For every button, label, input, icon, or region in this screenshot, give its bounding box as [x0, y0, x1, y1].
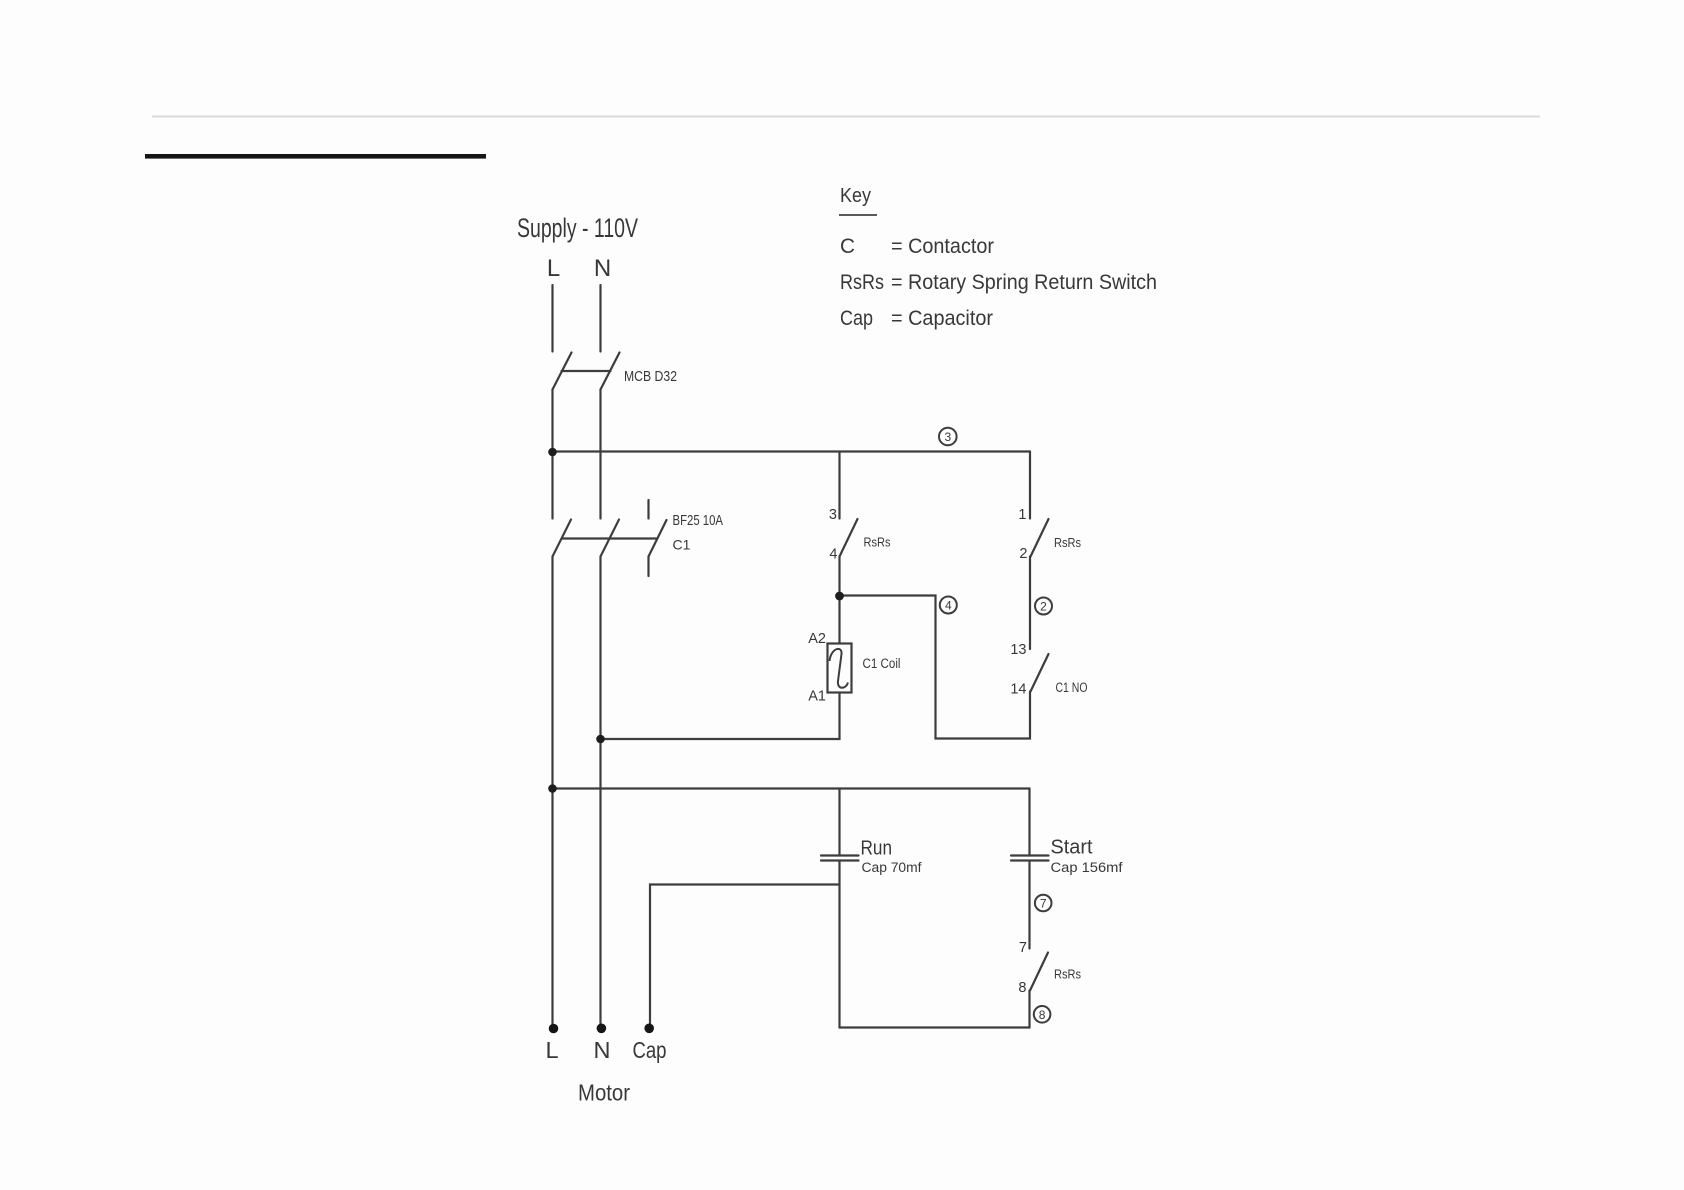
- contactor C1 pole L blade: [553, 520, 572, 557]
- svg-text:Cap: Cap: [633, 1037, 667, 1063]
- wire RsRs pin8 drop: [1028, 991, 1030, 1028]
- svg-text:7: 7: [1040, 897, 1047, 911]
- svg-text:L: L: [547, 255, 560, 282]
- motor terminal N dot: [597, 1024, 607, 1034]
- svg-text:C1: C1: [673, 537, 691, 553]
- wire RsRs 3-4 drop from rail: [838, 452, 840, 519]
- svg-text:4: 4: [945, 599, 952, 613]
- node junction N coil rail: [596, 735, 605, 744]
- svg-text:RsRs: RsRs: [1054, 536, 1081, 550]
- capacitor run bottom plate: [821, 859, 859, 861]
- svg-text:3: 3: [829, 507, 837, 523]
- svg-text:3: 3: [944, 430, 951, 444]
- node label 8 circle: [1034, 1006, 1051, 1023]
- svg-text:C1 NO: C1 NO: [1056, 680, 1088, 695]
- wire L rail to capacitors: [553, 787, 1030, 789]
- switch RsRs 7-8 blade: [1030, 953, 1048, 991]
- node junction L rail1: [548, 448, 557, 457]
- svg-text:8: 8: [1039, 1008, 1046, 1022]
- key underline: [839, 214, 877, 216]
- wire N supply drop: [599, 285, 601, 352]
- svg-text:8: 8: [1018, 980, 1026, 996]
- svg-text:C: C: [840, 235, 855, 258]
- wire run cap top drop: [838, 789, 840, 856]
- wire bottom cap rail: [840, 1026, 1030, 1028]
- key legend: [839, 184, 1157, 330]
- wire RsRs 4 to node4 junction: [838, 557, 840, 597]
- coil C1 body: [828, 644, 852, 693]
- breaker MCB D32 pole L blade: [553, 353, 572, 390]
- svg-text:RsRs: RsRs: [840, 271, 884, 294]
- svg-text:A2: A2: [808, 631, 826, 647]
- svg-text:= Rotary Spring Return Switch: = Rotary Spring Return Switch: [891, 271, 1157, 294]
- svg-text:N: N: [594, 255, 611, 282]
- contactor C1 pole 3 blade: [649, 520, 667, 557]
- wire between RsRs 1-2 and C1 NO: [1029, 557, 1031, 650]
- wire N below MCB: [599, 390, 601, 519]
- node junction coil top node4: [835, 592, 844, 601]
- svg-text:RsRs: RsRs: [864, 536, 891, 550]
- wire node4 loop to C1 NO: [840, 596, 1031, 739]
- motor terminal Cap dot: [644, 1024, 654, 1034]
- svg-text:A1: A1: [808, 689, 826, 705]
- svg-text:Cap: Cap: [840, 307, 873, 330]
- svg-text:= Capacitor: = Capacitor: [891, 307, 993, 330]
- svg-text:1: 1: [1018, 507, 1026, 523]
- wire start cap to RsRs pin7: [1028, 861, 1030, 949]
- breaker MCB D32 link bar: [562, 370, 611, 372]
- switch RsRs 1-2 blade: [1031, 519, 1049, 557]
- wire run cap bottom to rail: [838, 861, 840, 1028]
- breaker MCB D32 pole N blade: [601, 353, 620, 390]
- header rule: [152, 116, 1540, 118]
- svg-text:L: L: [545, 1037, 558, 1063]
- svg-text:2: 2: [1019, 546, 1027, 562]
- node label 4 circle: [940, 597, 957, 614]
- svg-text:13: 13: [1010, 642, 1026, 658]
- switch C1 NO blade: [1031, 654, 1049, 692]
- svg-text:N: N: [594, 1037, 611, 1063]
- switch RsRs 3-4 blade: [840, 519, 858, 557]
- redacted title bar: [145, 154, 486, 159]
- wire L below MCB: [551, 390, 553, 453]
- capacitor run top plate: [821, 854, 859, 856]
- svg-text:Run: Run: [861, 837, 893, 860]
- node label 7 circle: [1035, 895, 1052, 912]
- svg-text:14: 14: [1010, 682, 1026, 698]
- svg-text:2: 2: [1040, 600, 1047, 614]
- wire start cap top drop: [1028, 789, 1030, 856]
- wire L to motor terminal: [551, 789, 553, 1029]
- svg-text:Cap 70mf: Cap 70mf: [862, 860, 922, 875]
- wire cap motor terminal branch: [650, 885, 840, 1029]
- svg-text:4: 4: [829, 547, 837, 563]
- node label 2 circle: [1035, 598, 1052, 615]
- svg-text:C1 Coil: C1 Coil: [863, 656, 901, 671]
- svg-text:= Contactor: = Contactor: [891, 235, 994, 258]
- motor terminal L dot: [549, 1024, 559, 1034]
- svg-text:Motor: Motor: [578, 1080, 630, 1106]
- svg-text:Key: Key: [840, 184, 872, 207]
- wire coil A2 to node4: [838, 596, 840, 644]
- node label 3 circle: [939, 428, 957, 446]
- wire L supply drop: [551, 285, 553, 352]
- wire L below contactor: [551, 557, 553, 789]
- wire rail right end drop to RsRs pin1: [1029, 452, 1031, 519]
- wire N to motor terminal: [599, 739, 601, 1028]
- svg-text:7: 7: [1019, 940, 1027, 956]
- contactor C1 link bar: [562, 537, 657, 539]
- capacitor start bottom plate: [1011, 859, 1049, 861]
- svg-text:Cap 156mf: Cap 156mf: [1051, 860, 1123, 875]
- wire N below contactor: [599, 557, 601, 740]
- wire L into contactor: [551, 452, 553, 519]
- svg-text:MCB D32: MCB D32: [624, 368, 677, 385]
- node junction L rail2: [548, 784, 557, 793]
- wire rail node3 horizontal: [553, 450, 1031, 452]
- contactor C1 pole N blade: [601, 520, 620, 557]
- contactor C1 pole 3 stub top: [647, 500, 649, 519]
- wire node junction to coil A1: [601, 693, 840, 740]
- svg-text:RsRs: RsRs: [1054, 968, 1081, 982]
- contactor C1 pole 3 stub bottom: [647, 557, 649, 577]
- coil C1 curl: [830, 649, 849, 688]
- capacitor start top plate: [1011, 854, 1049, 856]
- svg-text:Start: Start: [1051, 836, 1093, 859]
- svg-text:BF25 10A: BF25 10A: [673, 513, 724, 529]
- svg-text:Supply - 110V: Supply - 110V: [517, 213, 638, 243]
